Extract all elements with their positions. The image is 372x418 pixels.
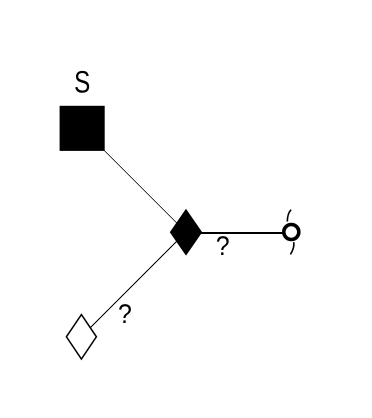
label ? linkage lower — [119, 304, 131, 323]
wire diamond-to-circle — [195, 232, 285, 234]
label ? linkage right — [217, 236, 229, 255]
node white diamond — [66, 315, 96, 359]
wire square-to-diamond — [82, 129, 186, 233]
label S — [75, 71, 89, 93]
wire diamond-to-white-diamond — [81, 232, 186, 337]
node S black square — [60, 106, 105, 151]
node black diamond — [170, 210, 201, 255]
reducing-end squiggle bottom arc — [290, 242, 294, 254]
reducing-end squiggle top arc — [287, 210, 291, 222]
reducing-end circle O — [284, 225, 299, 240]
